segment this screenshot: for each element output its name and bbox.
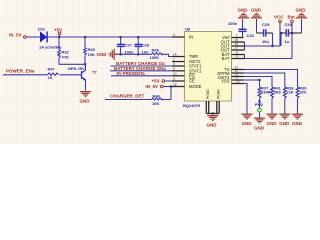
svg-text:R47: R47 xyxy=(48,66,56,71)
svg-text:10K: 10K xyxy=(299,90,306,95)
svg-text:GND: GND xyxy=(242,121,253,126)
svg-text:D11: D11 xyxy=(38,27,46,32)
svg-text:+5V: +5V xyxy=(152,79,160,84)
svg-text:IN: IN xyxy=(189,35,193,40)
svg-text:4: 4 xyxy=(173,33,175,37)
svg-text:Bat: Bat xyxy=(288,14,296,19)
svg-text:GND: GND xyxy=(238,7,249,12)
svg-text:C25: C25 xyxy=(262,22,270,27)
svg-text:1A schottky: 1A schottky xyxy=(39,44,62,49)
svg-text:13: 13 xyxy=(173,72,177,76)
svg-text:100K: 100K xyxy=(150,55,160,60)
svg-text:C26: C26 xyxy=(247,33,255,38)
svg-text:10K: 10K xyxy=(152,101,159,106)
svg-text:IN_5V: IN_5V xyxy=(9,33,22,38)
svg-text:1: 1 xyxy=(236,34,238,38)
svg-text:18: 18 xyxy=(173,83,177,87)
svg-text:GND: GND xyxy=(292,121,303,126)
svg-text:6: 6 xyxy=(236,55,238,59)
svg-text:VSS: VSS xyxy=(221,79,230,84)
svg-text:8: 8 xyxy=(173,62,175,66)
svg-text:5V PRESENTa: 5V PRESENTa xyxy=(117,71,146,76)
svg-text:7: 7 xyxy=(173,58,175,62)
svg-text:1K: 1K xyxy=(48,75,53,80)
svg-text:PGND: PGND xyxy=(216,89,220,99)
svg-text:+5V: +5V xyxy=(54,28,62,33)
svg-text:MODE: MODE xyxy=(189,84,202,89)
svg-text:C28: C28 xyxy=(142,42,150,47)
svg-text:R39: R39 xyxy=(152,47,160,52)
svg-text:630R: 630R xyxy=(261,90,271,95)
svg-text:NPN 25V: NPN 25V xyxy=(68,66,85,71)
svg-text:GND: GND xyxy=(97,52,108,57)
svg-text:POWER_ENa: POWER_ENa xyxy=(6,69,35,74)
svg-text:C27: C27 xyxy=(125,42,133,47)
svg-text:100n: 100n xyxy=(125,49,135,54)
svg-text:VCC: VCC xyxy=(274,14,284,19)
svg-text:T7: T7 xyxy=(92,70,97,75)
svg-text:10K: 10K xyxy=(88,52,95,57)
svg-text:1u: 1u xyxy=(285,39,290,44)
svg-text:CE: CE xyxy=(189,79,195,84)
svg-text:GND: GND xyxy=(296,7,307,12)
svg-text:20: 20 xyxy=(236,80,240,84)
svg-text:BAT: BAT xyxy=(222,56,230,61)
svg-text:GND: GND xyxy=(279,121,290,126)
svg-text:BQ24070: BQ24070 xyxy=(183,103,201,108)
svg-text:5K6: 5K6 xyxy=(274,90,282,95)
svg-text:PGND: PGND xyxy=(206,89,210,99)
svg-text:CHARGER_DET: CHARGER_DET xyxy=(110,93,145,98)
svg-text:PM2: PM2 xyxy=(255,102,264,107)
svg-text:GND: GND xyxy=(80,98,91,103)
svg-text:3: 3 xyxy=(173,77,175,81)
svg-text:GND: GND xyxy=(251,7,262,12)
svg-text:C54: C54 xyxy=(285,22,293,27)
svg-text:GND: GND xyxy=(254,126,265,131)
svg-text:22K: 22K xyxy=(286,90,293,95)
svg-text:14: 14 xyxy=(173,53,177,57)
svg-text:47K: 47K xyxy=(62,54,69,59)
svg-text:U6: U6 xyxy=(185,26,191,31)
svg-text:GND: GND xyxy=(267,121,278,126)
svg-text:10n: 10n xyxy=(142,49,149,54)
svg-text:10u: 10u xyxy=(262,39,269,44)
svg-text:17: 17 xyxy=(235,46,239,50)
svg-text:IN_5V: IN_5V xyxy=(146,84,159,89)
svg-text:R46: R46 xyxy=(153,94,161,99)
svg-text:GND: GND xyxy=(207,123,218,128)
svg-text:100n: 100n xyxy=(228,21,238,26)
svg-text:9: 9 xyxy=(173,67,175,71)
